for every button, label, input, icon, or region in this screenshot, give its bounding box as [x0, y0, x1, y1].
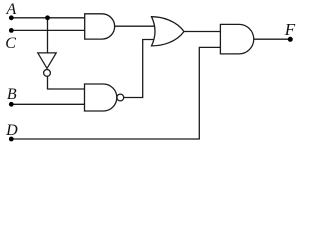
svg-text:C: C	[5, 35, 16, 52]
or-gate	[152, 17, 185, 46]
node B (input terminal dot)	[9, 102, 14, 107]
inverter (NOT gate)	[38, 53, 56, 69]
node C (input terminal dot)	[9, 28, 14, 33]
wire AND2-to-F	[254, 38, 291, 40]
wire inverter-to-NAND	[48, 76, 85, 89]
wire junction-to-inverter	[47, 18, 49, 53]
nand-gate (inputs NOT-A, B)	[85, 84, 117, 111]
wire NAND-to-OR	[124, 40, 155, 98]
wire OR-to-AND2	[184, 31, 221, 33]
and-gate AND1 (inputs A, C)	[85, 14, 115, 39]
svg-text:B: B	[7, 86, 17, 103]
wire D	[11, 47, 220, 139]
svg-text:A: A	[6, 1, 17, 18]
wire C	[11, 29, 84, 31]
node D (input terminal dot)	[9, 137, 14, 142]
svg-text:F: F	[284, 20, 296, 39]
and-gate AND2 (output stage)	[220, 24, 253, 54]
svg-text:D: D	[5, 122, 18, 139]
node F (output terminal dot)	[288, 37, 293, 42]
wire AND1-to-OR	[115, 25, 156, 27]
wire A	[11, 17, 84, 19]
nand-gate bubble	[117, 94, 124, 101]
junction on wire A	[45, 15, 50, 20]
inverter bubble	[44, 70, 51, 77]
wire B	[11, 103, 84, 105]
node A (input terminal dot)	[9, 15, 14, 20]
